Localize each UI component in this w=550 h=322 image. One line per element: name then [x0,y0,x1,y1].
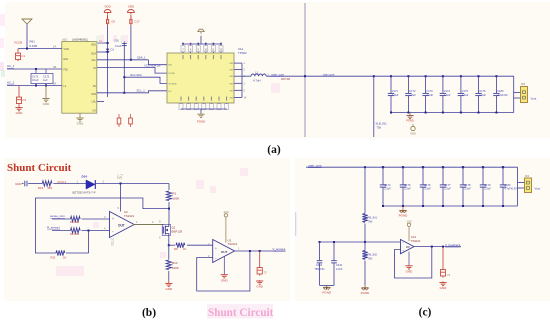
svg-text:C177: C177 [444,183,451,187]
svg-text:C180: C180 [497,89,504,93]
svg-text:(b): (b) [142,307,156,319]
svg-text:1V3: 1V3 [407,220,412,224]
svg-text:I2CSD: I2CSD [169,73,176,75]
svg-text:C204: C204 [316,264,323,267]
svg-text:4.7uH: 4.7uH [253,79,260,83]
svg-text:73: 73 [447,273,451,277]
svg-text:2.2uF: 2.2uF [424,187,431,191]
svg-text:D1: D1 [111,48,115,52]
svg-text:100K: 100K [172,266,179,270]
svg-text:R67 0R: R67 0R [281,77,290,81]
svg-text:I2C2-SDA: I2C2-SDA [130,73,142,77]
svg-text:R10: R10 [172,261,178,265]
svg-text:TPS62: TPS62 [238,51,247,55]
svg-text:R11: R11 [51,256,56,260]
svg-text:−: − [112,229,114,233]
svg-text:PGND: PGND [322,291,332,295]
svg-text:GND: GND [43,102,51,106]
svg-text:D14: D14 [82,175,88,179]
svg-text:C174: C174 [444,89,451,93]
svg-text:2K1: 2K1 [48,186,53,190]
svg-text:TS2121: TS2121 [124,214,135,218]
svg-text:FC: FC [169,91,172,93]
svg-text:R19: R19 [38,186,44,190]
svg-text:TBD FF1: TBD FF1 [315,268,326,271]
svg-text:R12 0E: R12 0E [70,220,79,224]
svg-text:PGND: PGND [197,120,205,124]
svg-text:PGND: PGND [406,119,414,123]
svg-text:1uF: 1uF [43,78,48,82]
svg-text:LM26480SQ: LM26480SQ [72,38,89,42]
svg-text:C172: C172 [43,75,50,79]
svg-text:PGND: PGND [399,214,409,218]
svg-text:C173: C173 [426,89,433,93]
svg-text:C176: C176 [479,89,486,93]
svg-text:1A: 1A [53,45,56,49]
svg-text:GND: GND [15,182,21,186]
svg-text:3A: 3A [53,82,56,86]
svg-text:V_feedback: V_feedback [445,243,461,247]
svg-text:TS9121: TS9121 [411,239,421,243]
svg-text:Vout: Vout [531,97,537,101]
svg-text:GA: GA [93,110,97,113]
svg-text:1.0uF: 1.0uF [479,93,486,97]
svg-text:PGND: PGND [361,291,371,295]
svg-text:J18: J18 [521,82,526,86]
svg-text:4B: 4B [53,65,56,69]
svg-text:GND: GND [256,285,264,289]
svg-text:AC_1: AC_1 [7,64,15,68]
svg-text:SDA_1: SDA_1 [137,56,146,60]
svg-text:1.0uF: 1.0uF [462,93,469,97]
svg-text:GND: GND [221,278,229,282]
svg-text:75K: 75K [368,219,373,223]
svg-text:1.0uF: 1.0uF [426,93,433,97]
svg-text:VDD: VDD [128,5,135,9]
svg-text:C176: C176 [424,183,431,187]
svg-text:C178: C178 [464,183,471,187]
svg-text:GND: GND [77,122,85,126]
svg-text:100K: 100K [173,197,180,201]
svg-text:U10: U10 [62,38,68,42]
svg-text:75K: 75K [368,256,373,260]
svg-text:BZT52C4V7S-7-F: BZT52C4V7S-7-F [73,190,96,194]
svg-text:VINA: VINA [64,48,70,51]
svg-text:1.0uF: 1.0uF [409,93,416,97]
svg-text:4.7uF/10: 4.7uF/10 [497,93,508,97]
svg-text:4.7uF/6.3V: 4.7uF/6.3V [504,187,517,191]
svg-text:2.2uF: 2.2uF [384,187,391,191]
svg-text:0.15R: 0.15R [30,44,38,48]
svg-text:+: + [112,217,114,221]
svg-text:C175: C175 [404,183,411,187]
svg-text:1.0uF: 1.0uF [392,93,399,97]
svg-text:C171: C171 [392,89,399,93]
svg-text:OU: OU [406,246,410,249]
svg-text:main_core: main_core [308,164,322,168]
svg-text:AC_2: AC_2 [7,81,15,85]
svg-text:I2C2-SDA 1/8: I2C2-SDA 1/8 [145,63,161,67]
svg-text:VCCB: VCCB [14,41,22,45]
svg-text:C243: C243 [336,264,343,267]
svg-text:TS2121: TS2121 [112,237,115,246]
svg-text:2.2uF: 2.2uF [464,187,471,191]
svg-text:V_sense1: V_sense1 [273,247,286,251]
svg-text:TS2121: TS2121 [228,242,238,246]
svg-text:R9: R9 [174,247,178,251]
svg-text:2.2uF: 2.2uF [404,187,411,191]
svg-text:2.2uF: 2.2uF [444,187,451,191]
svg-text:C1: C1 [21,54,25,58]
svg-text:EN: EN [169,65,172,67]
svg-text:(a): (a) [267,144,281,156]
svg-text:SDA: SDA [91,53,96,56]
svg-text:main_core: main_core [271,72,285,76]
svg-text:C179: C179 [484,183,491,187]
svg-text:LDL: LDL [92,101,97,104]
svg-text:1K: 1K [183,247,187,251]
svg-text:main core: main core [323,73,335,77]
svg-text:GND: GND [165,287,173,291]
svg-text:1.0uF: 1.0uF [444,93,451,97]
svg-text:SCL_1: SCL_1 [137,89,146,93]
svg-text:C171: C171 [32,75,39,79]
svg-text:GND: GND [406,269,414,273]
svg-text:R_sense1: R_sense1 [47,225,60,229]
svg-text:C2: C2 [22,98,26,102]
svg-text:C180: C180 [504,183,511,187]
svg-text:1V3: 1V3 [223,210,229,214]
svg-text:0.1uF: 0.1uF [32,78,39,82]
svg-text:LDR: LDR [91,93,96,96]
svg-text:L1: L1 [255,71,259,75]
svg-text:R13 0E: R13 0E [70,232,79,236]
svg-text:J15: J15 [525,174,530,178]
svg-text:OUT: OUT [221,250,228,254]
svg-text:FB1: FB1 [64,69,69,72]
svg-text:−: − [215,257,217,261]
svg-text:Vout: Vout [535,187,541,191]
svg-text:75k: 75k [377,126,382,130]
svg-text:GND: GND [16,111,24,115]
svg-text:73: 73 [264,271,268,275]
svg-text:C8: C8 [111,20,115,24]
svg-text:2.2uF: 2.2uF [484,187,491,191]
svg-text:C174: C174 [384,183,391,187]
svg-text:EN1: EN1 [64,58,69,61]
svg-text:Shunt Circuit: Shunt Circuit [7,162,72,174]
svg-text:GND: GND [410,133,416,136]
svg-text:OUT: OUT [118,223,125,227]
svg-text:2.2nF: 2.2nF [336,268,343,271]
svg-text:Shunt Circuit: Shunt Circuit [208,307,274,319]
svg-text:GND: GND [440,286,448,290]
svg-text:BSP129: BSP129 [172,229,183,233]
svg-text:1V5: 1V5 [117,175,123,179]
svg-text:I2CSDB: I2CSDB [169,83,177,85]
svg-text:R61: R61 [30,40,36,44]
svg-text:R1: R1 [173,192,177,196]
svg-text:VDD: VDD [91,44,96,47]
svg-text:0.1uF: 0.1uF [115,44,122,48]
svg-text:1K: 1K [63,256,67,260]
svg-text:C175: C175 [462,89,469,93]
svg-text:C172: C172 [409,89,416,93]
svg-text:(c): (c) [419,306,432,318]
svg-text:VDD: VDD [104,5,111,9]
svg-text:sense_com: sense_com [50,214,65,218]
svg-text:+: + [215,246,217,250]
svg-text:C17: C17 [135,20,141,24]
svg-text:SCL: SCL [91,59,96,62]
